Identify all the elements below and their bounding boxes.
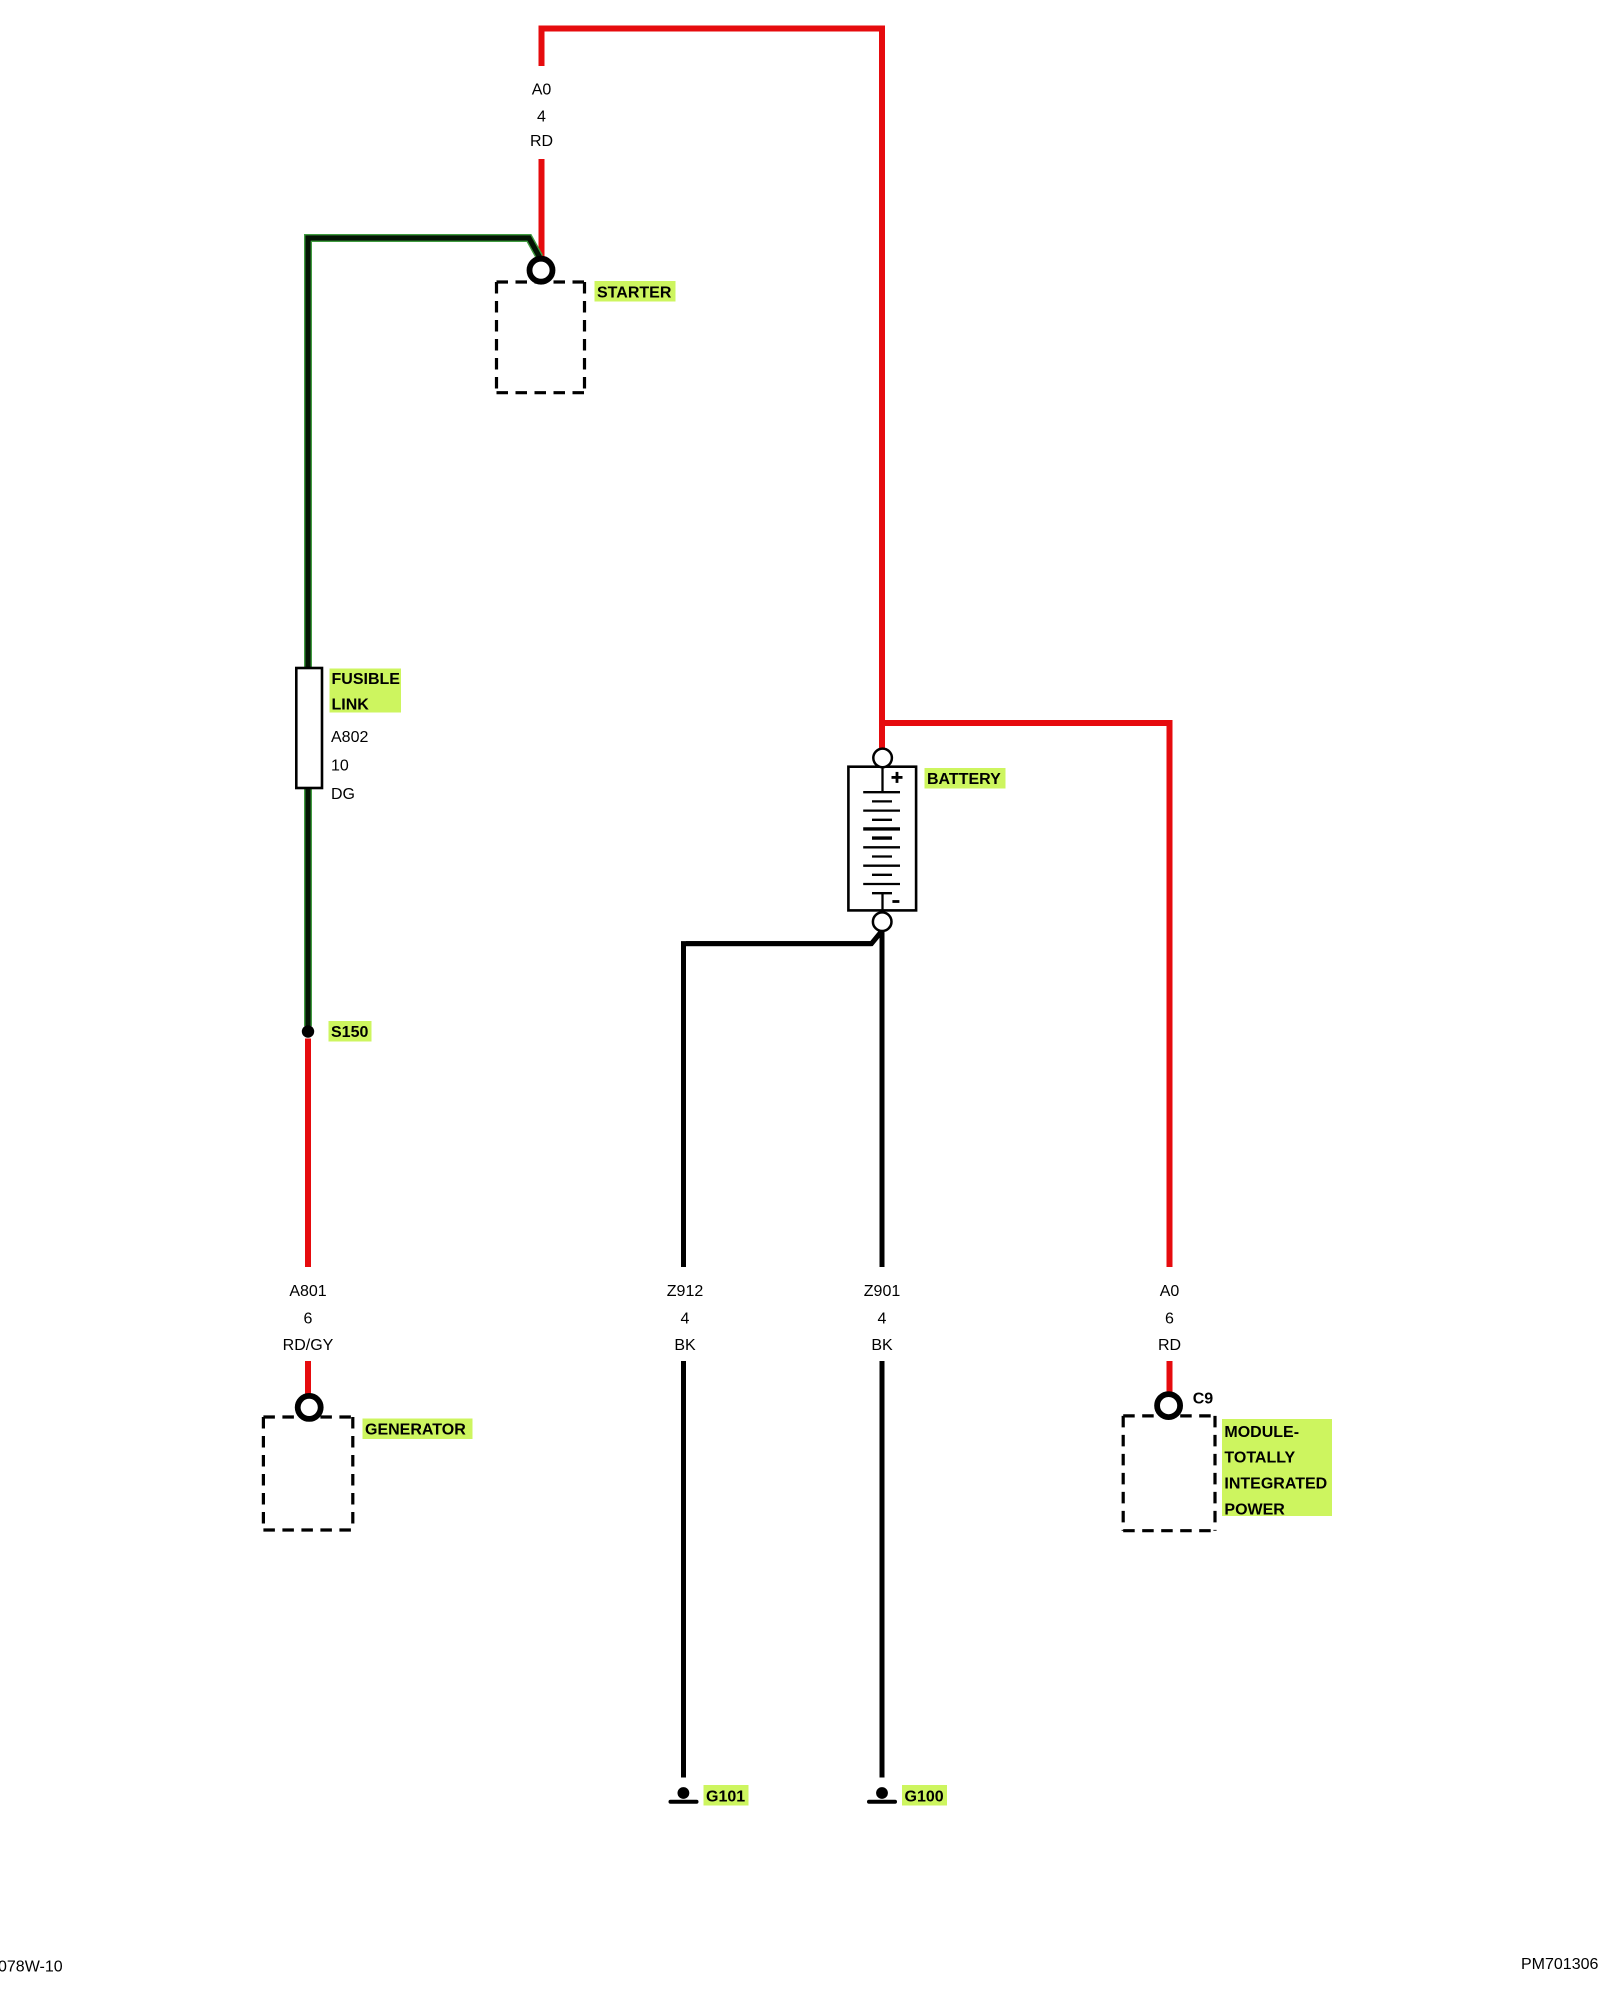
ground G100 symbol — [869, 1787, 895, 1802]
starter terminal circle — [530, 259, 553, 282]
svg-text:BK: BK — [871, 1337, 893, 1354]
label STARTER — [595, 281, 676, 302]
label A0 4 RD (top wire) — [530, 81, 553, 150]
label S150 — [329, 1021, 372, 1042]
label Z901 4 BK — [864, 1283, 901, 1354]
svg-text:INTEGRATED: INTEGRATED — [1224, 1475, 1327, 1492]
splice S150 — [302, 1025, 314, 1037]
label FUSIBLE LINK — [330, 669, 402, 714]
wire A802 DG: fusible link to splice S150 — [304, 788, 312, 1026]
fusible link A802 component — [296, 668, 322, 788]
svg-text:4: 4 — [537, 109, 546, 126]
svg-text:C9: C9 — [1193, 1390, 1214, 1407]
svg-text:PM701306: PM701306 — [1521, 1956, 1598, 1973]
svg-text:POWER: POWER — [1224, 1502, 1285, 1519]
svg-text:10: 10 — [331, 758, 349, 775]
generator terminal circle — [298, 1396, 321, 1419]
wire A801 6 RD/GY: S150 to generator — [305, 1039, 311, 1396]
wire A0 4 RD: top red run from starter up, across, down to battery positive — [542, 29, 883, 749]
starter box (dashed) — [497, 282, 585, 393]
label MODULE-TOTALLY INTEGRATED POWER — [1222, 1419, 1332, 1519]
battery B1 — [848, 767, 916, 911]
wire A802 10 DG: dark green from starter to fusible link — [308, 238, 540, 668]
svg-text:S150: S150 — [331, 1024, 368, 1041]
battery negative terminal — [873, 912, 892, 931]
generator box (dashed) — [263, 1417, 352, 1530]
svg-text:LINK: LINK — [332, 697, 370, 714]
svg-text:4: 4 — [878, 1310, 887, 1327]
svg-text:A801: A801 — [289, 1283, 326, 1300]
wire A0 6 RD: branch from battery positive to TIPM C9 — [882, 723, 1170, 1393]
TIPM module box (dashed) — [1123, 1416, 1215, 1531]
svg-text:STARTER: STARTER — [597, 284, 672, 301]
svg-text:G100: G100 — [905, 1788, 944, 1805]
battery positive terminal — [873, 749, 892, 768]
svg-text:GENERATOR: GENERATOR — [365, 1421, 466, 1438]
label A0 6 RD (right wire) — [1158, 1283, 1181, 1354]
ground G101 symbol — [671, 1787, 697, 1802]
svg-text:Z912: Z912 — [667, 1283, 704, 1300]
label Z912 4 BK — [667, 1283, 704, 1354]
svg-text:TOTALLY: TOTALLY — [1224, 1450, 1295, 1467]
label G100 — [902, 1785, 947, 1806]
svg-text:A802: A802 — [331, 729, 368, 746]
label BATTERY — [925, 768, 1006, 789]
label GENERATOR — [363, 1419, 473, 1440]
svg-text:RD: RD — [530, 133, 553, 150]
svg-text:BK: BK — [674, 1337, 696, 1354]
svg-text:4: 4 — [681, 1310, 690, 1327]
svg-text:MODULE-: MODULE- — [1224, 1424, 1299, 1441]
svg-text:6: 6 — [304, 1310, 313, 1327]
svg-text:G101: G101 — [706, 1788, 745, 1805]
svg-text:RD/GY: RD/GY — [283, 1337, 334, 1354]
label G101 — [704, 1785, 749, 1806]
svg-text:A0: A0 — [1160, 1283, 1180, 1300]
svg-text:DG: DG — [331, 786, 355, 803]
svg-text:BATTERY: BATTERY — [927, 771, 1001, 788]
label A802 10 DG (fuse values) — [331, 729, 368, 803]
svg-text:A0: A0 — [532, 81, 552, 98]
svg-text:078W-10: 078W-10 — [0, 1959, 63, 1976]
wire Z901 4 BK: battery negative to ground G100 — [880, 930, 885, 1778]
label A801 6 RD/GY — [283, 1283, 334, 1354]
svg-text:Z901: Z901 — [864, 1283, 901, 1300]
connector C9 terminal circle — [1157, 1394, 1180, 1417]
svg-text:FUSIBLE: FUSIBLE — [332, 671, 401, 688]
svg-text:RD: RD — [1158, 1337, 1181, 1354]
svg-text:6: 6 — [1165, 1310, 1174, 1327]
wire Z912 4 BK: branch from battery negative to ground G101 — [684, 932, 882, 1778]
